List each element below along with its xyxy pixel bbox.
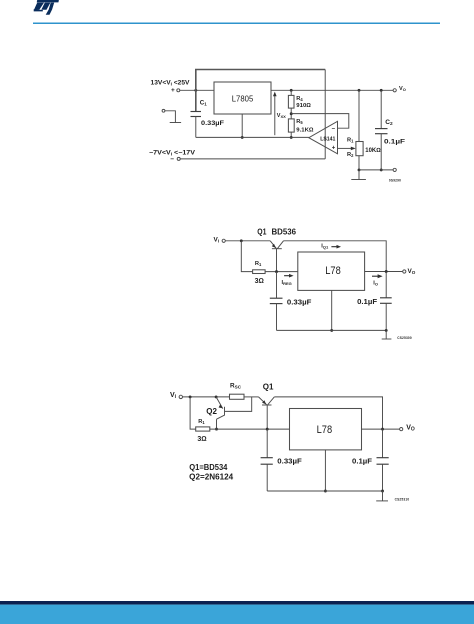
wiper arrow — [351, 147, 356, 151]
capacitor 0.33uF — [261, 457, 273, 459]
capacitor 0.1uF — [377, 457, 389, 459]
node C2 bottom — [380, 168, 383, 171]
svg-text:Vi: Vi — [170, 392, 177, 400]
IQ1 arrow — [331, 246, 337, 248]
regulator U1 L78 — [298, 252, 365, 290]
wire 0.1uF upper — [382, 429, 384, 458]
svg-text:0.33µF: 0.33µF — [277, 457, 302, 466]
Q2 emitter arrow — [219, 405, 223, 409]
wire 0.33uF upper — [266, 429, 268, 458]
wire Q2 base loop — [225, 397, 252, 412]
wire ground stub — [382, 491, 384, 501]
Vxx arrow — [274, 95, 276, 135]
wire input top — [183, 396, 230, 398]
wire output — [362, 428, 400, 430]
node Q2 emitter junction — [215, 395, 218, 398]
Q1 emitter arrow — [262, 400, 266, 404]
regulator U1 L7805 — [214, 82, 271, 114]
svg-text:3Ω: 3Ω — [255, 278, 264, 285]
wire op-amp supply vertical — [324, 70, 326, 159]
node pot top — [358, 89, 361, 92]
svg-text:RSC: RSC — [230, 382, 242, 389]
svg-text:R5: R5 — [296, 119, 303, 125]
svg-text:R1: R1 — [347, 138, 354, 144]
svg-text:Q1: Q1 — [263, 383, 274, 392]
node base capacitor junction — [275, 270, 278, 273]
output terminal Vo — [403, 270, 406, 273]
node input split — [240, 239, 243, 242]
node input split — [189, 395, 192, 398]
wire bottom rail — [277, 329, 387, 331]
wire Q1 collector to output branch — [274, 397, 382, 429]
node output capacitor junction — [385, 270, 388, 273]
capacitor 0.33uF — [270, 297, 283, 299]
wire outer loop top — [196, 70, 325, 91]
svg-text:0.33µF: 0.33µF — [287, 297, 312, 306]
svg-text:IQ1: IQ1 — [321, 243, 329, 249]
wire L78 ground pin — [331, 290, 333, 330]
output terminal Vo — [393, 89, 396, 92]
wire bottom rail — [267, 490, 382, 492]
wire C1 branch lower — [195, 117, 197, 138]
resistor R5 — [288, 119, 294, 132]
wire R5 bottom stub — [290, 132, 292, 137]
svg-text:0S9290: 0S9290 — [389, 179, 401, 183]
node pot bottom — [358, 168, 361, 171]
footer navy line — [0, 601, 474, 605]
transistor Q1 — [259, 397, 275, 405]
svg-text:C2: C2 — [385, 119, 393, 127]
wire collector to output branch — [284, 241, 387, 272]
svg-text:13V<VI <25V: 13V<VI <25V — [151, 80, 191, 87]
svg-text:0.33µF: 0.33µF — [201, 120, 224, 127]
wire L7805 ground pin — [241, 114, 243, 137]
node L7805 ground to rail — [241, 136, 244, 139]
wire lower output rail — [359, 169, 393, 171]
wire output rail — [271, 89, 393, 91]
wire left branch down — [190, 397, 196, 429]
ground — [376, 500, 388, 502]
wire Q1 base — [276, 249, 278, 272]
svg-text:IO: IO — [373, 280, 378, 286]
lower output terminal — [393, 168, 396, 171]
ground — [382, 338, 392, 340]
wire common rail — [196, 136, 309, 138]
wire ground lead — [165, 111, 176, 123]
wire 0.33uF lower — [266, 464, 268, 491]
wire pot lower — [358, 156, 360, 170]
ground — [351, 179, 366, 181]
svg-text:CS25310: CS25310 — [395, 498, 410, 502]
node rail right — [385, 329, 388, 332]
wire 0.1uF upper — [385, 272, 387, 298]
wire C2 upper — [380, 90, 382, 128]
wire negative rail — [180, 158, 325, 160]
regulator U1 L78 — [290, 409, 362, 450]
wire noninverting to wiper — [338, 147, 352, 149]
wire 0.1uF lower — [382, 464, 384, 491]
wire C1 branch upper — [195, 90, 197, 111]
ground — [170, 122, 181, 124]
svg-text:L78: L78 — [317, 424, 333, 436]
wire input top — [225, 240, 270, 242]
svg-text:VO: VO — [399, 86, 406, 92]
svg-text:0.1µF: 0.1µF — [352, 457, 372, 466]
capacitor C1 — [191, 111, 202, 113]
svg-text:IREG: IREG — [282, 280, 292, 286]
wire Q2 collector down — [216, 419, 218, 429]
wire RSC to Q1 — [244, 396, 259, 398]
node Q2 collector to input wire — [215, 428, 218, 431]
input terminal — [179, 395, 182, 398]
resistor R1 — [196, 427, 210, 431]
ST logo — [34, 0, 59, 15]
node output capacitor junction — [381, 428, 384, 431]
IREG arrow — [284, 275, 290, 277]
wire R1 to regulator — [265, 271, 298, 273]
wire R4 top stub — [290, 90, 292, 95]
Q1 emitter arrow — [272, 244, 276, 248]
capacitor 0.1uF — [380, 297, 392, 299]
wire R4 bottom stub — [290, 108, 292, 119]
wire feedback to inverting input — [291, 114, 349, 129]
wire ground stub — [385, 330, 387, 338]
svg-text:BD536: BD536 — [272, 227, 297, 236]
node rail right — [381, 490, 384, 493]
node R4 top — [290, 89, 293, 92]
node ground pin to rail — [330, 329, 333, 332]
svg-text:R2: R2 — [347, 152, 354, 158]
svg-text:−: − — [332, 127, 336, 133]
svg-text:L7805: L7805 — [232, 93, 254, 103]
svg-text:+: + — [332, 146, 336, 152]
svg-text:0.1µF: 0.1µF — [384, 139, 405, 146]
svg-text:+: + — [171, 87, 175, 94]
wire Q1 base — [266, 405, 268, 429]
resistor RSC — [230, 394, 245, 399]
resistor R1 — [253, 270, 266, 274]
transistor Q2 — [216, 397, 224, 419]
svg-text:L78: L78 — [325, 265, 341, 277]
negative input terminal — [177, 157, 180, 160]
footer blue bar — [0, 605, 474, 624]
transistor Q1 — [270, 241, 283, 249]
svg-text:CS25300: CS25300 — [397, 336, 412, 340]
svg-text:10KΩ: 10KΩ — [365, 148, 381, 154]
Io arrow — [372, 275, 379, 277]
svg-text:Q1: Q1 — [257, 227, 267, 236]
node Q1 base capacitor junction — [266, 428, 269, 431]
wire output — [365, 271, 403, 273]
header rule — [33, 23, 440, 25]
svg-text:R4: R4 — [296, 96, 303, 102]
input terminal — [222, 239, 225, 242]
svg-text:R1: R1 — [198, 419, 205, 425]
svg-text:LS141: LS141 — [320, 136, 335, 142]
svg-text:VXX: VXX — [277, 113, 286, 119]
wire pot ground stub — [358, 170, 360, 180]
node R4 R5 junction — [290, 112, 293, 115]
svg-text:Q2: Q2 — [206, 407, 217, 416]
ground terminal — [162, 109, 165, 112]
node ground pin to rail — [324, 490, 327, 493]
svg-text:Q1=BD534: Q1=BD534 — [189, 463, 228, 472]
svg-text:Vi: Vi — [214, 236, 220, 243]
wire input to regulator — [180, 89, 214, 91]
wire C2 lower — [380, 134, 382, 170]
capacitor C2 — [375, 128, 388, 130]
svg-text:R1: R1 — [255, 261, 262, 267]
output terminal Vo — [400, 428, 403, 431]
op-amp U2 LS141 — [309, 121, 338, 154]
wire 0.33uF lower — [276, 304, 278, 331]
resistor R4 — [288, 95, 294, 108]
input terminal — [177, 89, 180, 92]
svg-text:9.1KΩ: 9.1KΩ — [296, 127, 314, 133]
svg-text:910Ω: 910Ω — [296, 103, 311, 109]
svg-text:Q2=2N6124: Q2=2N6124 — [189, 473, 234, 482]
node R5 to rail — [290, 136, 293, 139]
svg-text:C1: C1 — [200, 100, 207, 107]
wire 0.1uF lower — [385, 303, 387, 330]
wire pot upper — [358, 90, 360, 141]
svg-text:0.1µF: 0.1µF — [357, 297, 377, 306]
potentiometer R1 R2 — [356, 142, 363, 156]
wire R1 to regulator — [210, 428, 290, 430]
node C2 top — [380, 89, 383, 92]
wire 0.33uF upper — [276, 272, 278, 299]
svg-text:3Ω: 3Ω — [197, 436, 206, 443]
wire L78 ground pin — [324, 450, 326, 491]
wire left branch down — [241, 241, 252, 272]
node input junction — [194, 89, 197, 92]
svg-text:VO: VO — [406, 424, 415, 432]
svg-text:−: − — [170, 156, 174, 163]
svg-text:VO: VO — [408, 268, 416, 275]
